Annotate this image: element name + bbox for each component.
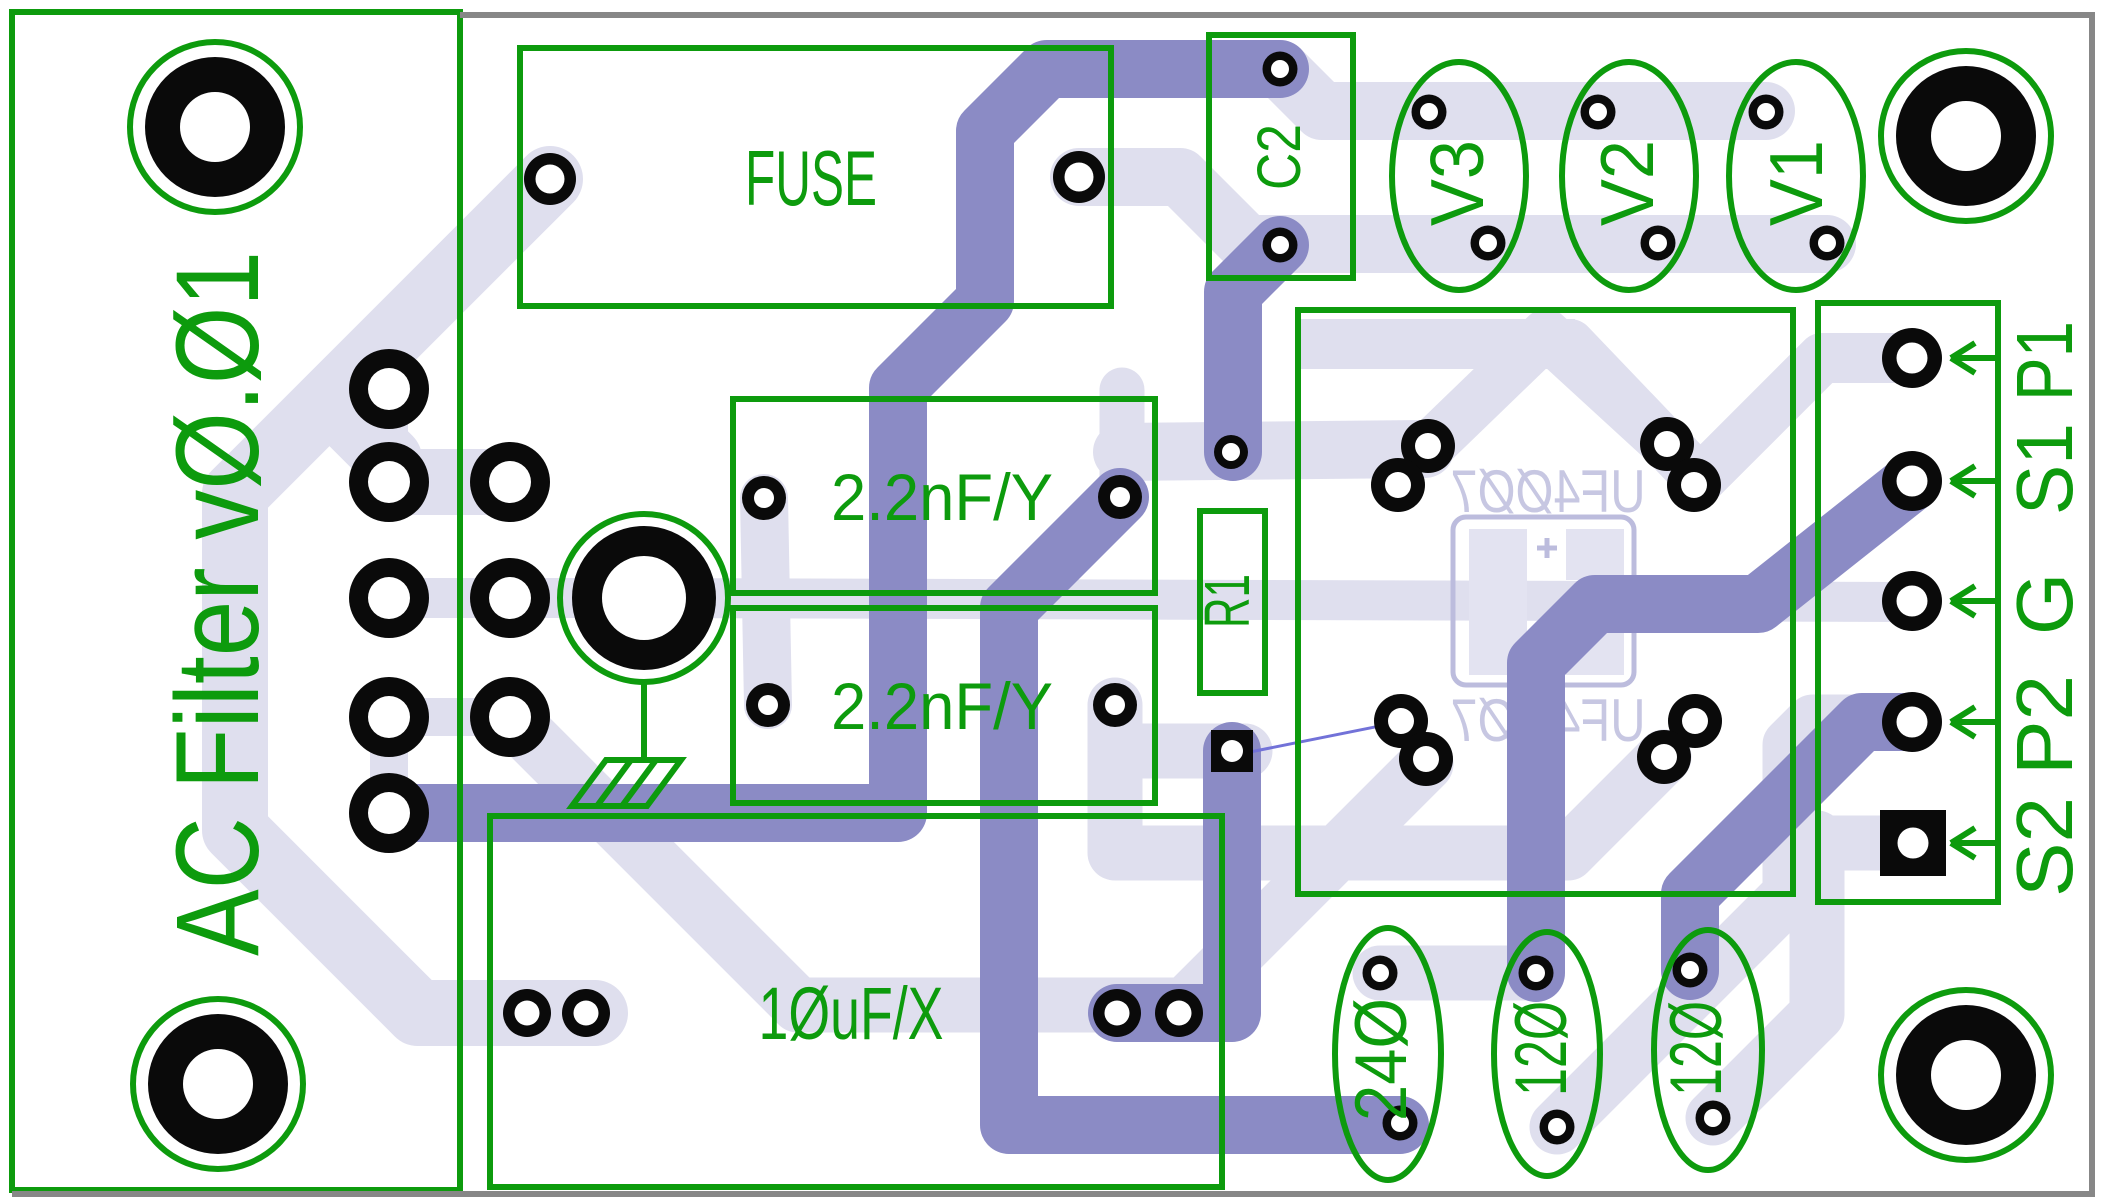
pad C3.1 bbox=[742, 476, 786, 520]
wire 120#1 bottom pad up to connector P2 bbox=[1557, 722, 1907, 1127]
pad D4.K bbox=[1637, 730, 1691, 784]
wire P2 to 120#2 top pad bbox=[1690, 722, 1912, 971]
airwire R1.2 to rectifier BL pad bbox=[1245, 722, 1400, 753]
pad E1 central bbox=[572, 526, 716, 670]
pad C4.1 bbox=[746, 683, 790, 727]
pad C3.2 bbox=[1098, 475, 1142, 519]
wire R1.2 down to 10uF right pads bbox=[1117, 751, 1232, 1013]
wire 120#2 bottom pad up to connector S2 bbox=[1713, 838, 1817, 1118]
pad V3.2 bbox=[1471, 226, 1506, 261]
wire spur to R1.2 bbox=[1116, 724, 1245, 779]
hole H1 bbox=[145, 57, 285, 197]
wire bottom-copper FUSE.1 to 10uF/X left pads bbox=[235, 179, 595, 1013]
wire C3.1 to C4.1 vertical bbox=[764, 498, 768, 705]
pad K4 bbox=[470, 677, 550, 757]
wire net G: central pad to connector G bbox=[389, 598, 1912, 602]
ground symbol hatch bbox=[572, 760, 681, 806]
pad C1.2b bbox=[1155, 989, 1203, 1037]
wire stub J pads 4-5 bbox=[370, 717, 408, 813]
hole H3 bbox=[148, 1014, 288, 1154]
pad D3.K bbox=[1399, 732, 1453, 786]
svg-text:P2: P2 bbox=[2000, 675, 2089, 775]
svg-text:V2: V2 bbox=[1585, 140, 1669, 226]
mounting ring H3 bbox=[133, 999, 303, 1169]
hole H2 bbox=[1896, 66, 2036, 206]
pad X1.P1 bbox=[1882, 328, 1942, 388]
mounting ring H4 bbox=[1881, 990, 2051, 1160]
wire S1 to 120#1 top pad bbox=[1536, 482, 1912, 973]
pad D2.K bbox=[1667, 458, 1721, 512]
pad K3 bbox=[470, 558, 550, 638]
pad V1.1 bbox=[1749, 95, 1784, 130]
ground stem bbox=[641, 682, 647, 758]
pad D3.A bbox=[1374, 694, 1428, 748]
varistor V2 ellipse bbox=[1562, 62, 1696, 290]
arrow S2 bbox=[1951, 828, 1995, 858]
wire C4.2 down and right to rectifier BR pad bbox=[1115, 705, 1664, 853]
hole H4 bbox=[1896, 1005, 2036, 1145]
wire FUSE.2 to C2.2 to varistor bottom pads bbox=[1079, 177, 1827, 244]
pad K2 bbox=[470, 442, 550, 522]
FUSE box outline bbox=[520, 48, 1111, 306]
pad J5 bbox=[349, 773, 429, 853]
arrow P2 bbox=[1951, 707, 1995, 737]
pad 240.1 bbox=[1363, 956, 1398, 991]
capacitor C2 box outline bbox=[1209, 35, 1353, 278]
pad C1.1b bbox=[562, 989, 610, 1037]
pad D2.A bbox=[1640, 417, 1694, 471]
left connector box outline bbox=[12, 12, 460, 1190]
mounting ring H2 bbox=[1881, 51, 2051, 221]
pad J4 bbox=[349, 677, 429, 757]
pad C1.1 bbox=[503, 989, 551, 1037]
wire stub J pads 1-2 bbox=[370, 389, 408, 482]
varistor V1 ellipse bbox=[1729, 62, 1863, 290]
pad R1.1 bbox=[1214, 435, 1248, 469]
wire stub row y482 bbox=[389, 449, 510, 515]
wire C2.1 to varistor top pads bbox=[1280, 69, 1766, 111]
svg-text:12Ø: 12Ø bbox=[1501, 1001, 1582, 1096]
resistor R1 box outline bbox=[1200, 511, 1265, 693]
pad C4.2 bbox=[1093, 683, 1137, 727]
wire top-copper C2.1 to pad(389,813) bbox=[389, 69, 1280, 813]
capacitor C1 box outline 10uF/X bbox=[490, 816, 1222, 1187]
svg-text:G: G bbox=[2000, 573, 2089, 635]
capacitor C3 box outline 2.2nF/Y top bbox=[733, 399, 1155, 593]
svg-text:V1: V1 bbox=[1754, 140, 1838, 226]
varistor 240 ellipse bbox=[1335, 928, 1441, 1180]
svg-text:R1: R1 bbox=[1191, 574, 1263, 628]
varistor 120b ellipse bbox=[1654, 930, 1762, 1170]
wire C3.2 down to 240 bottom pad bbox=[1009, 497, 1400, 1125]
pad 240.2 bbox=[1383, 1106, 1418, 1141]
pad 120a.1 bbox=[1519, 956, 1554, 991]
wire pad(510,717) to 10uF right pads to rectifier BL pad bbox=[510, 717, 1426, 1005]
svg-text:AC Filter vØ.Ø1: AC Filter vØ.Ø1 bbox=[152, 251, 284, 956]
svg-text:12Ø: 12Ø bbox=[1656, 1001, 1737, 1096]
pad J1 bbox=[349, 349, 429, 429]
pad C2.2 bbox=[1263, 228, 1298, 263]
svg-text:S2: S2 bbox=[2000, 797, 2089, 897]
pad 120b.1 bbox=[1673, 953, 1708, 988]
pad V2.2 bbox=[1641, 226, 1676, 261]
pad V2.1 bbox=[1581, 95, 1616, 130]
pad C2.1 bbox=[1263, 52, 1298, 87]
capacitor C4 box outline 2.2nF/Y bottom bbox=[733, 608, 1155, 803]
connector X1 box outline bbox=[1818, 303, 1998, 902]
mirrored plus mark bbox=[1537, 538, 1557, 558]
wire branch to pad J-2 bbox=[335, 405, 389, 482]
mirrored bottom-silk footprint bar left bbox=[1469, 529, 1527, 675]
wire 240 top pad to 120 top pad bbox=[1380, 946, 1536, 1001]
wire lambda to rectifier top pads bbox=[1429, 334, 1667, 447]
pad C1.2 bbox=[1093, 989, 1141, 1037]
pad V3.1 bbox=[1412, 95, 1447, 130]
wire R1.1 row to rectifier TL pad bbox=[1122, 449, 1425, 452]
pad R1.2 square bbox=[1211, 730, 1253, 772]
svg-text:1ØuF/X: 1ØuF/X bbox=[759, 972, 944, 1055]
pad D1.A bbox=[1401, 419, 1455, 473]
pad X1.P2 bbox=[1882, 692, 1942, 752]
pad FUSE.2 bbox=[1053, 151, 1105, 203]
pad drill holes (white) bbox=[1271, 60, 1289, 78]
pad X1.S2 square bbox=[1880, 810, 1946, 876]
pad V1.2 bbox=[1810, 226, 1845, 261]
pad J2 bbox=[349, 442, 429, 522]
mounting ring H1 bbox=[130, 42, 300, 212]
mirrored bottom-silk footprint bar top-right bbox=[1566, 529, 1624, 580]
svg-text:2.2nF/Y: 2.2nF/Y bbox=[831, 669, 1053, 743]
arrow G bbox=[1951, 586, 1995, 616]
pad D4.A bbox=[1668, 694, 1722, 748]
svg-text:24Ø: 24Ø bbox=[1341, 998, 1422, 1121]
mirrored bottom-silk footprint outline bbox=[1453, 517, 1634, 685]
arrow P1 bbox=[1951, 343, 1995, 373]
pad FUSE.1 bbox=[524, 153, 576, 205]
svg-text:V3: V3 bbox=[1415, 140, 1499, 226]
varistor 120a ellipse bbox=[1494, 932, 1600, 1176]
wire net P1 into connector bbox=[1296, 319, 1575, 369]
pad X1.G bbox=[1882, 571, 1942, 631]
central pad ring bbox=[560, 514, 728, 682]
pad 120a.2 bbox=[1540, 1110, 1575, 1145]
wire C2.2 to R1.1 bbox=[1233, 245, 1280, 452]
wire stub row y717 bbox=[389, 698, 510, 736]
arrow S1 bbox=[1951, 466, 1995, 496]
pad X1.S1 bbox=[1882, 451, 1942, 511]
svg-text:S1: S1 bbox=[2000, 423, 2089, 515]
svg-text:P1: P1 bbox=[2000, 321, 2089, 401]
svg-text:FUSE: FUSE bbox=[745, 134, 877, 222]
varistor V3 ellipse bbox=[1392, 62, 1526, 290]
rectifier box outline bbox=[1298, 310, 1793, 894]
pad 120b.2 bbox=[1696, 1101, 1731, 1136]
pad J3 bbox=[349, 558, 429, 638]
mirrored bottom-silk footprint bar bottom-right bbox=[1566, 623, 1624, 675]
svg-text:UF4ØØ7: UF4ØØ7 bbox=[1451, 458, 1646, 525]
pad D1.K bbox=[1371, 458, 1425, 512]
wire vertical above C3.2 pad bbox=[1100, 390, 1145, 497]
svg-text:C2: C2 bbox=[1245, 124, 1313, 190]
svg-text:2.2nF/Y: 2.2nF/Y bbox=[831, 460, 1053, 534]
